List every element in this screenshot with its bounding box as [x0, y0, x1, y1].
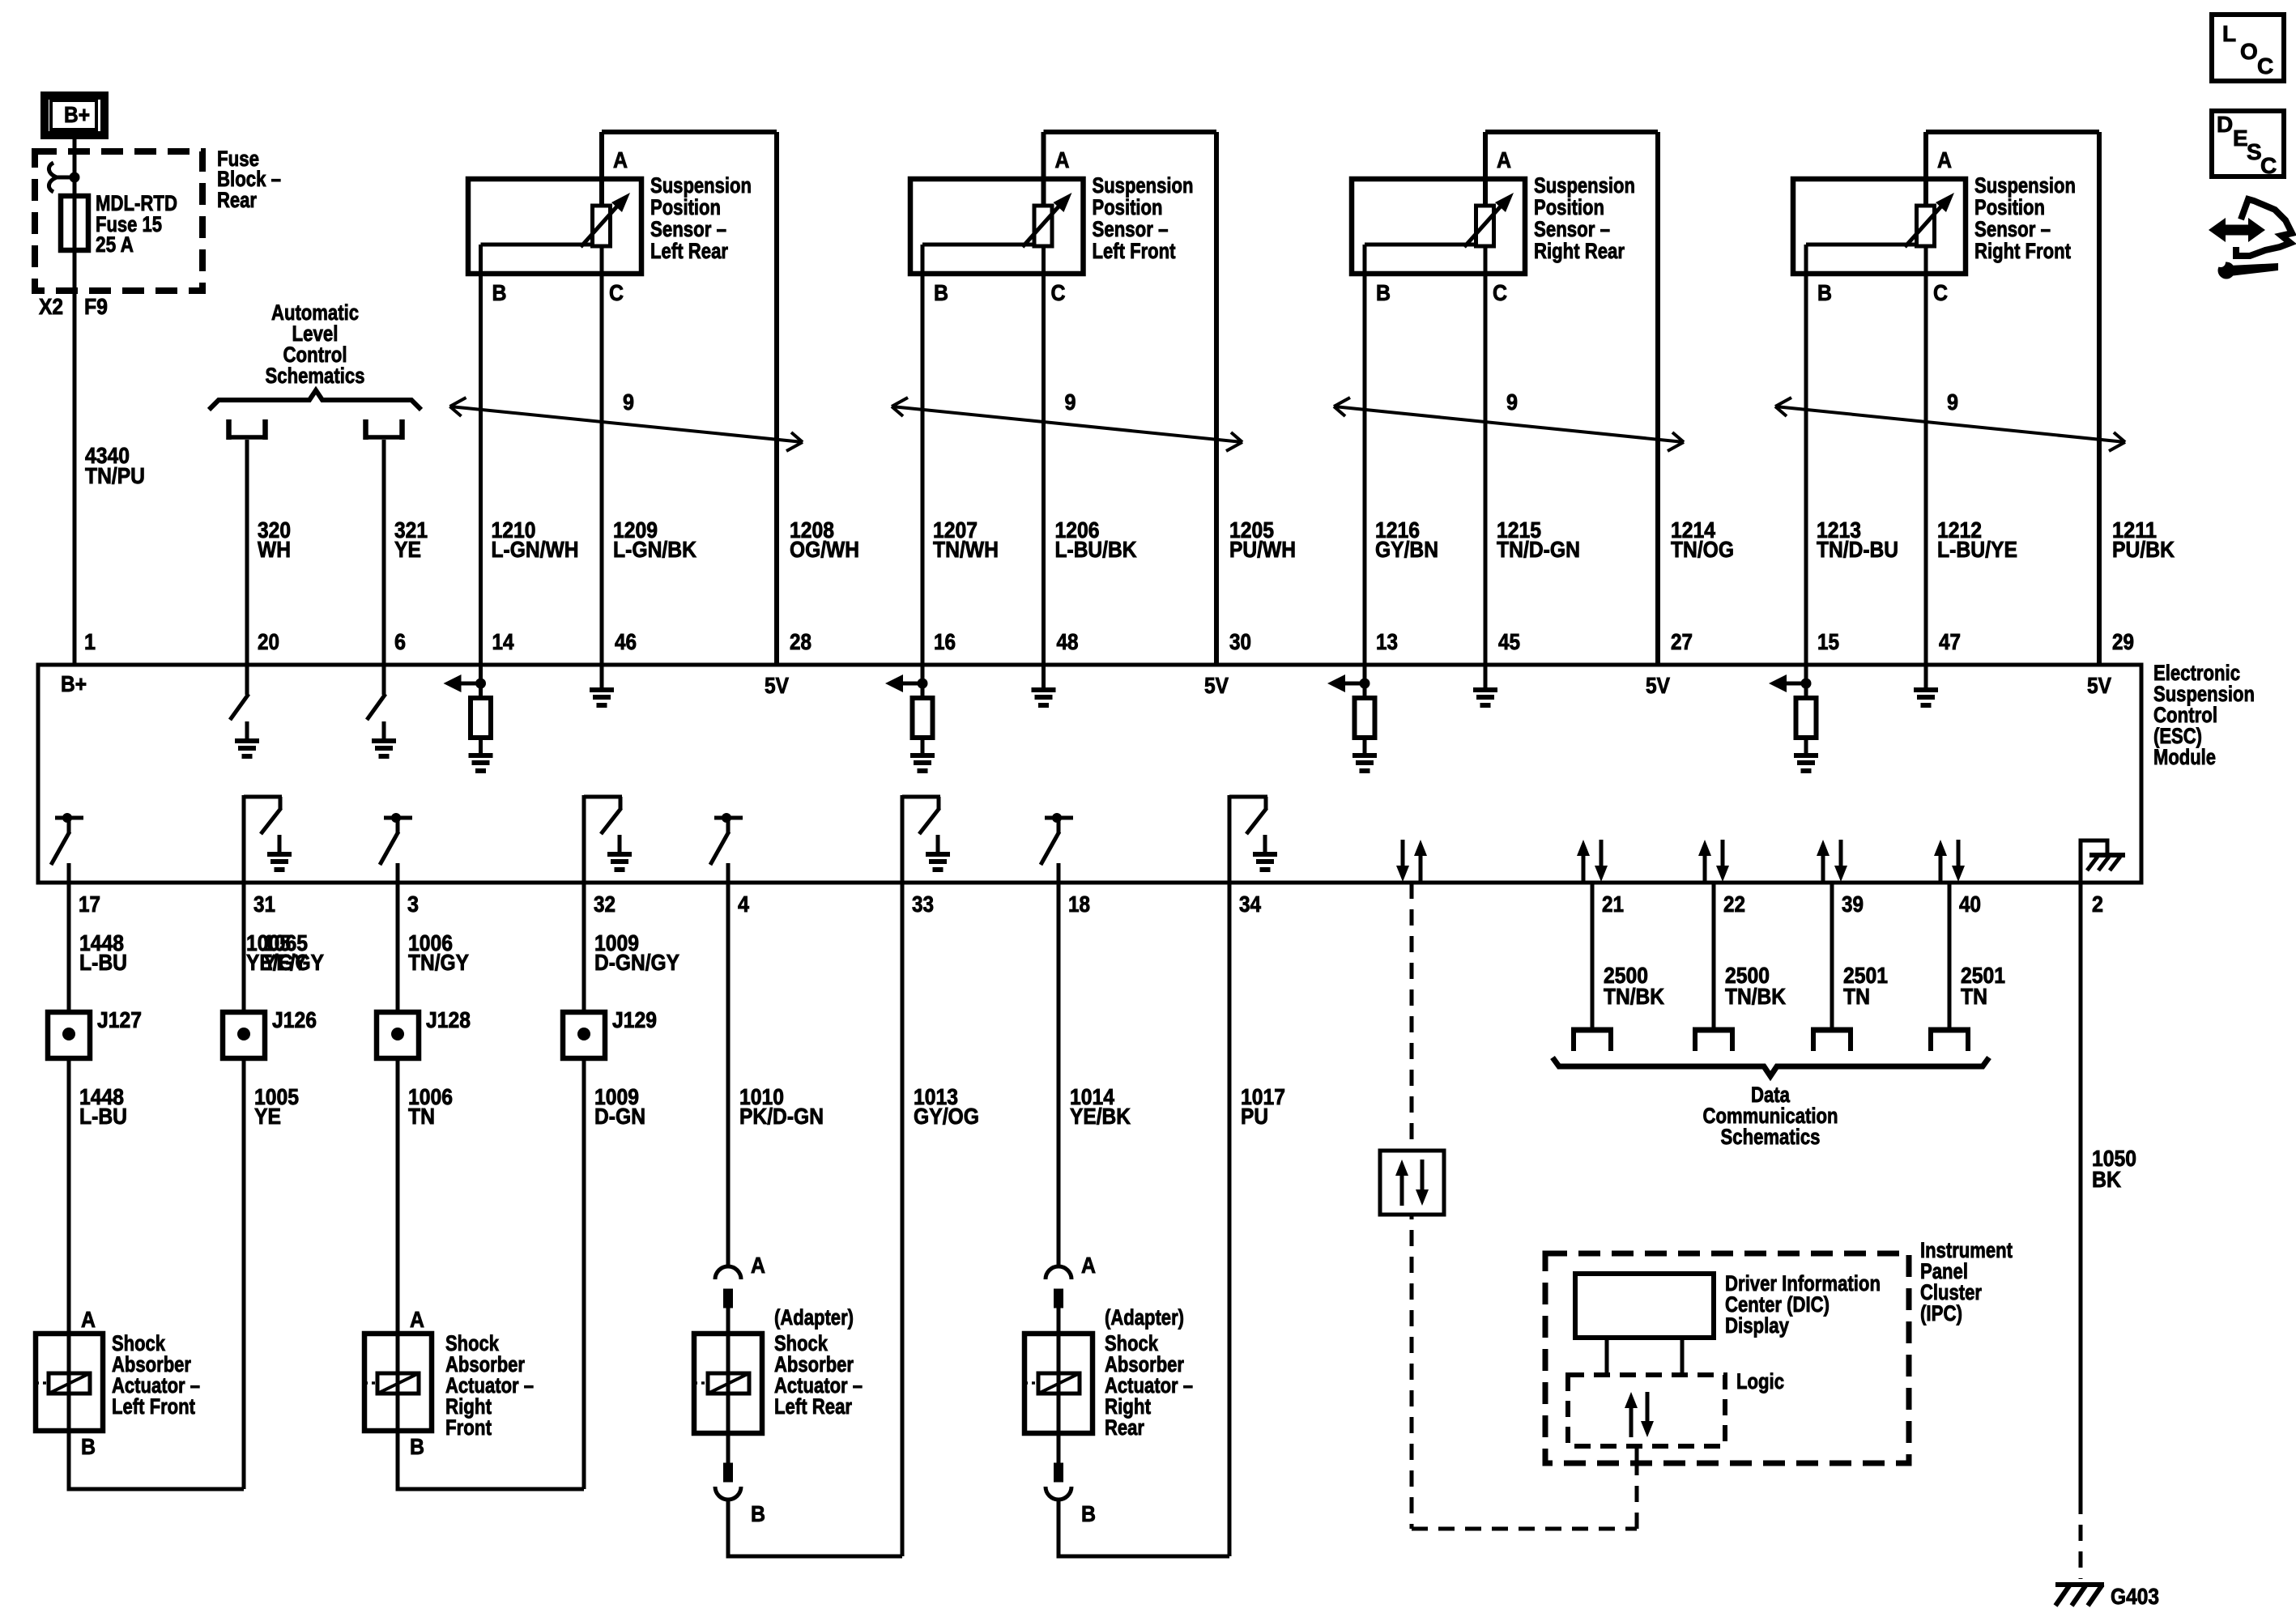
label Fuse Block - Rear	[217, 147, 281, 212]
wire label 1010 PK/D-GN	[739, 1084, 824, 1129]
instrument panel cluster IPC dashed box	[1545, 1253, 1909, 1463]
svg-text:TN/GY: TN/GY	[408, 950, 469, 975]
return wire down column 1114	[901, 883, 905, 1556]
svg-text:34: 34	[1239, 891, 1261, 917]
svg-text:25 A: 25 A	[96, 232, 134, 257]
svg-text:18: 18	[1068, 891, 1090, 917]
ground symbol inside module at pin 45	[1484, 665, 1488, 689]
svg-text:Sensor –: Sensor –	[1534, 217, 1610, 241]
DIC display title text	[1725, 1271, 1881, 1338]
svg-text:F9: F9	[84, 294, 108, 319]
bidirectional arrows inside logic box	[1625, 1392, 1654, 1437]
switch to ground inside module at pin 33	[902, 795, 940, 883]
ground symbol inside module below resistor pin 14	[469, 755, 493, 771]
svg-text:28: 28	[790, 629, 811, 654]
svg-text:TN/WH: TN/WH	[933, 537, 999, 562]
wire labels sensor Left Rear	[492, 517, 860, 562]
svg-text:Left Rear: Left Rear	[774, 1394, 852, 1419]
LOC legend box	[2212, 15, 2284, 81]
svg-text:(Adapter): (Adapter)	[774, 1305, 854, 1330]
fuse F9 MDL-RTD Fuse 15 25 A	[61, 196, 88, 250]
svg-text:L-BU: L-BU	[79, 950, 127, 975]
wire pin 32 to splice J129	[582, 883, 586, 1012]
svg-text:PK/D-GN: PK/D-GN	[739, 1104, 824, 1129]
suspension position sensor - Left Rear outer box	[602, 132, 777, 665]
sensor Right Front title text	[1974, 173, 2076, 263]
svg-text:B: B	[934, 280, 948, 305]
svg-text:YE: YE	[394, 537, 421, 562]
harness 9 crossing line for sensor Left Rear	[450, 389, 803, 451]
svg-text:B: B	[1817, 280, 1832, 305]
svg-text:5V: 5V	[1646, 673, 1670, 698]
svg-text:13: 13	[1376, 629, 1398, 654]
output driver switch with contact dot inside module at pin 17	[51, 813, 83, 883]
svg-text:GY/OG: GY/OG	[914, 1104, 979, 1129]
splice J126	[223, 1012, 265, 1058]
actuator Right Front title text	[445, 1331, 534, 1440]
connector labels X2 F9	[39, 294, 108, 319]
svg-text:A: A	[410, 1307, 424, 1332]
wire label 1009 D-GN/GY	[594, 930, 679, 975]
inline connector halves at pin A of Right Rear	[1046, 1266, 1071, 1334]
svg-text:15: 15	[1817, 629, 1839, 654]
wire serial data circuit 2500 TN/BK from pin 21	[1591, 883, 1595, 1030]
junction dot	[70, 172, 80, 183]
inline connector halves at pin B of Left Rear	[715, 1433, 741, 1500]
sensor Left Front potentiometer	[922, 193, 1072, 247]
connector to level control, circuit 321 YE	[364, 419, 404, 440]
wire module to adapter actuator Left Rear pin A	[726, 883, 731, 1266]
svg-text:J128: J128	[426, 1007, 471, 1032]
return wire down column 721	[582, 1058, 586, 1489]
wire splice to shock absorber actuator Right Front pin A	[396, 1058, 400, 1334]
svg-text:PU/WH: PU/WH	[1229, 537, 1296, 562]
svg-text:BK: BK	[2092, 1167, 2121, 1192]
svg-text:3: 3	[407, 891, 419, 917]
wire ground circuit 1050 BK from pin 2	[2079, 883, 2083, 1579]
svg-text:L-GN/WH: L-GN/WH	[492, 537, 579, 562]
sensor Left Rear potentiometer	[481, 193, 631, 247]
wire label 2500 TN/BK	[1725, 963, 1786, 1009]
svg-text:J127: J127	[97, 1007, 142, 1032]
sensor Left Front title text	[1093, 173, 1194, 263]
svg-text:Position: Position	[1974, 195, 2045, 219]
svg-text:B: B	[751, 1501, 765, 1526]
splice J127	[48, 1012, 90, 1058]
svg-text:PU: PU	[1241, 1104, 1268, 1129]
Electronic Suspension Control ESC module box	[38, 665, 2141, 883]
return wire down column 301	[242, 1058, 246, 1489]
connector to level control, circuit 320 WH	[227, 419, 267, 440]
svg-text:A: A	[1497, 147, 1511, 172]
return wire actuator Left Front pin B	[69, 1431, 244, 1489]
suspension position sensor - Left Front outer box	[1044, 132, 1217, 665]
svg-text:A: A	[1081, 1253, 1096, 1278]
svg-text:(IPC): (IPC)	[1920, 1301, 1962, 1326]
svg-text:D-GN: D-GN	[594, 1104, 645, 1129]
connector to data communication, pin 40	[1928, 1030, 1970, 1051]
wire label 2500 TN/BK	[1604, 963, 1664, 1009]
svg-text:29: 29	[2112, 629, 2134, 654]
ground symbol inside module at pin 47	[1924, 665, 1928, 689]
svg-text:9: 9	[623, 389, 634, 415]
suspension position sensor - Right Rear outer box	[1485, 132, 1658, 665]
svg-text:5V: 5V	[765, 673, 789, 698]
svg-text:9: 9	[1947, 389, 1958, 415]
svg-text:J129: J129	[612, 1007, 657, 1032]
svg-text:YE/GY: YE/GY	[263, 950, 324, 975]
svg-text:E: E	[2233, 126, 2248, 151]
svg-text:5V: 5V	[1204, 673, 1229, 698]
svg-text:YE: YE	[254, 1104, 281, 1129]
svg-text:Right Rear: Right Rear	[1534, 239, 1625, 263]
svg-text:OG/WH: OG/WH	[790, 537, 859, 562]
solenoid coil of actuator Right Front	[364, 1334, 419, 1431]
svg-text:S: S	[2247, 139, 2262, 164]
wire pin 3 to splice J128	[396, 883, 400, 1012]
wire sensor Left Front C to module, circuit 1206 L-BU/BK	[1042, 246, 1046, 665]
fuse block rear dashed box	[35, 151, 202, 291]
svg-text:TN/OG: TN/OG	[1671, 537, 1734, 562]
dashed data wire from module to IPC	[1412, 883, 1637, 1529]
DESC legend box	[2212, 111, 2284, 178]
svg-text:45: 45	[1498, 629, 1520, 654]
svg-text:Sensor –: Sensor –	[1974, 217, 2051, 241]
sensor Left Front connector box	[910, 179, 1084, 274]
svg-text:C: C	[609, 280, 624, 305]
svg-text:L-GN/BK: L-GN/BK	[613, 537, 696, 562]
splice J128	[377, 1012, 419, 1058]
svg-text:Position: Position	[1093, 195, 1163, 219]
svg-text:A: A	[751, 1253, 765, 1278]
sensor Left Rear pin letters A B C	[492, 147, 628, 305]
svg-text:L: L	[2222, 21, 2236, 46]
connector to data communication, pin 22	[1693, 1030, 1735, 1051]
ground symbol inside module below resistor pin 16	[910, 755, 935, 771]
svg-text:(Adapter): (Adapter)	[1105, 1305, 1184, 1330]
switch to ground inside module at pin 34	[1229, 795, 1267, 883]
bus tap hook at fuse input	[49, 163, 75, 192]
svg-text:22: 22	[1723, 891, 1745, 917]
bidirectional serial data arrows inside module at pin 22	[1698, 840, 1729, 882]
wire pin 31 to splice J126	[242, 883, 246, 1012]
svg-text:X2: X2	[39, 294, 63, 319]
wire label 1006 TN/GY	[408, 930, 469, 975]
sensor Right Rear connector box	[1352, 179, 1525, 274]
svg-text:B+: B+	[64, 102, 90, 127]
svg-text:1: 1	[84, 629, 96, 654]
svg-text:Module: Module	[2153, 745, 2216, 769]
svg-text:TN: TN	[408, 1104, 435, 1129]
svg-text:G403: G403	[2111, 1584, 2159, 1609]
IPC title text	[1920, 1238, 2013, 1326]
svg-text:C: C	[2257, 53, 2273, 79]
svg-text:A: A	[1055, 147, 1070, 172]
svg-text:A: A	[613, 147, 628, 172]
wire label 1013 GY/OG	[914, 1084, 979, 1129]
module input pull-up with arrow and resistor at pin 16	[885, 665, 933, 755]
svg-text:21: 21	[1602, 891, 1624, 917]
svg-text:9: 9	[1506, 389, 1518, 415]
svg-text:Logic: Logic	[1736, 1369, 1784, 1394]
solenoid coil of adapter actuator Left Rear	[694, 1334, 749, 1433]
shock absorber actuator Left Front box	[36, 1334, 103, 1431]
sensor Right Rear title text	[1534, 173, 1635, 263]
wire label 1006 TN	[408, 1084, 453, 1129]
boxed bidirectional arrow symbol on dashed line	[1380, 1151, 1444, 1215]
svg-text:Suspension: Suspension	[650, 173, 752, 198]
svg-text:PU/BK: PU/BK	[2112, 537, 2175, 562]
svg-text:TN/BK: TN/BK	[1725, 984, 1786, 1009]
module input pull-up with arrow and resistor at pin 15	[1769, 665, 1817, 755]
output driver switch with contact dot inside module at pin 18	[1041, 813, 1073, 883]
svg-text:9: 9	[1065, 389, 1076, 415]
ground symbol inside module below resistor pin 15	[1794, 755, 1818, 771]
bidirectional serial data arrows inside module at pin 39	[1817, 840, 1847, 882]
return wire actuator Right Front pin B	[398, 1431, 584, 1489]
driver switch to ground inside module at pin 6	[367, 665, 386, 740]
svg-text:B: B	[1376, 280, 1391, 305]
inline connector halves at pin A of Left Rear	[715, 1266, 741, 1334]
svg-text:47: 47	[1939, 629, 1961, 654]
sensor Right Front pin letters A B C	[1817, 147, 1952, 305]
solenoid coil of adapter actuator Right Rear	[1024, 1334, 1080, 1433]
sensor Right Front connector box	[1793, 179, 1966, 274]
harness 9 crossing line for sensor Right Front	[1775, 389, 2125, 451]
switch to ground inside module at pin 31	[244, 795, 282, 883]
chassis ground G403	[2055, 1585, 2104, 1606]
svg-text:32: 32	[594, 891, 616, 917]
svg-text:A: A	[1937, 147, 1952, 172]
adapter shock absorber actuator Left Rear box	[694, 1334, 762, 1433]
brace for Data Communication Schematics	[1553, 1057, 1989, 1076]
svg-text:5V: 5V	[2087, 673, 2111, 698]
brace for Automatic Level Control Schematics	[209, 390, 421, 410]
adapter actuator Right Rear title text	[1105, 1331, 1193, 1440]
svg-text:16: 16	[934, 629, 956, 654]
wire serial data circuit 2501 TN from pin 40	[1948, 883, 1952, 1030]
svg-text:B: B	[81, 1434, 96, 1459]
svg-text:Left Rear: Left Rear	[650, 239, 728, 263]
connector to data communication, pin 21	[1571, 1030, 1613, 1051]
svg-text:TN/PU: TN/PU	[85, 463, 145, 488]
fuse label MDL-RTD Fuse 15 25 A	[96, 191, 177, 257]
svg-text:40: 40	[1959, 891, 1981, 917]
module internal chassis ground at pin 2	[2081, 840, 2125, 883]
svg-text:Position: Position	[650, 195, 721, 219]
return wire down column 1518	[1228, 883, 1232, 1556]
svg-text:31: 31	[253, 891, 275, 917]
sensor Left Rear title text	[650, 173, 752, 263]
sensor Left Front pin letters A B C	[934, 147, 1070, 305]
bidirectional arrows inside module at dashed data line	[1396, 840, 1427, 882]
svg-text:B: B	[410, 1434, 424, 1459]
driver information center DIC display box	[1575, 1274, 1714, 1338]
adjust icon with double arrow, outline and wrench	[2209, 199, 2292, 279]
wire label 1014 YE/BK	[1070, 1084, 1131, 1129]
return wire adapter actuator Right Rear	[1059, 1500, 1229, 1556]
sensor Right Front potentiometer	[1806, 193, 1954, 247]
module input pull-up with arrow and resistor at pin 14	[444, 665, 492, 755]
svg-text:C: C	[1051, 280, 1066, 305]
svg-text:WH: WH	[258, 537, 291, 562]
svg-text:TN: TN	[1961, 984, 1987, 1009]
wire label 1448 L-BU	[79, 930, 127, 975]
svg-text:Schematics: Schematics	[266, 364, 365, 388]
wire sensor Right Front B to module, circuit 1213 TN/D-BU	[1804, 245, 1808, 665]
wire label 1009 D-GN	[594, 1084, 645, 1129]
logic dashed box	[1568, 1375, 1725, 1446]
svg-text:Left Front: Left Front	[1093, 239, 1176, 263]
wire label 2501 TN	[1843, 963, 1888, 1009]
svg-text:46: 46	[615, 629, 637, 654]
svg-text:A: A	[81, 1307, 96, 1332]
pin labels 13 45 27	[1376, 629, 1693, 654]
svg-text:Rear: Rear	[1105, 1415, 1144, 1440]
shock absorber actuator Right Front box	[364, 1334, 432, 1431]
svg-text:L-BU/BK: L-BU/BK	[1055, 537, 1137, 562]
wire labels sensor Left Front	[933, 517, 1296, 562]
adapter shock absorber actuator Right Rear box	[1024, 1334, 1093, 1433]
svg-text:L-BU/YE: L-BU/YE	[1937, 537, 2017, 562]
wire serial data circuit 2500 TN/BK from pin 22	[1712, 883, 1716, 1030]
bidirectional serial data arrows inside module at pin 21	[1577, 840, 1608, 882]
svg-text:Sensor –: Sensor –	[1093, 217, 1169, 241]
wire label 2501 TN	[1961, 963, 2005, 1009]
svg-text:Schematics: Schematics	[1721, 1125, 1821, 1149]
wire sensor Left Rear B to module, circuit 1210 L-GN/WH	[479, 245, 483, 665]
svg-text:B+: B+	[61, 671, 87, 696]
svg-text:39: 39	[1842, 891, 1864, 917]
svg-text:Position: Position	[1534, 195, 1604, 219]
connector to data communication, pin 39	[1811, 1030, 1853, 1051]
svg-text:YE/BK: YE/BK	[1070, 1104, 1131, 1129]
actuator Left Front title text	[112, 1331, 200, 1419]
output driver switch with contact dot inside module at pin 4	[710, 813, 743, 883]
sensor Right Rear potentiometer	[1365, 193, 1514, 247]
wire module to adapter actuator Right Rear pin A	[1057, 883, 1061, 1266]
svg-text:33: 33	[912, 891, 934, 917]
svg-text:Display: Display	[1725, 1313, 1789, 1338]
wire label 1005 YE	[254, 1084, 299, 1129]
wire 321 YE to ESC pin 6	[382, 440, 386, 665]
switch to ground inside module at pin 32	[584, 795, 622, 883]
wire sensor Right Rear B to module, circuit 1216 GY/BN	[1363, 245, 1367, 665]
label Data Communication Schematics	[1703, 1083, 1838, 1149]
wire label 1017 PU	[1241, 1084, 1285, 1129]
svg-text:4: 4	[738, 891, 749, 917]
return wire adapter actuator Left Rear	[728, 1500, 902, 1556]
wire labels sensor Right Front	[1817, 517, 2175, 562]
wire battery feed to fuse to pin 1, circuit 4340 TN/PU	[73, 139, 77, 665]
svg-text:Right Front: Right Front	[1974, 239, 2071, 263]
svg-text:D: D	[2217, 112, 2233, 137]
svg-text:14: 14	[492, 629, 514, 654]
svg-text:6: 6	[394, 629, 406, 654]
ground symbol inside module at pin 48	[1042, 665, 1046, 689]
svg-text:2: 2	[2092, 891, 2103, 917]
svg-text:L-BU: L-BU	[79, 1104, 127, 1129]
svg-text:Suspension: Suspension	[1093, 173, 1194, 198]
wire sensor Left Rear C to module, circuit 1209 L-GN/BK	[600, 246, 604, 665]
svg-text:D-GN/GY: D-GN/GY	[594, 950, 679, 975]
svg-text:Suspension: Suspension	[1534, 173, 1635, 198]
bidirectional serial data arrows inside module at pin 40	[1934, 840, 1965, 882]
ground symbol inside module at pin 46	[600, 665, 604, 689]
solenoid coil of actuator Left Front	[36, 1334, 90, 1431]
svg-text:GY/BN: GY/BN	[1375, 537, 1438, 562]
sensor Right Rear pin letters A B C	[1376, 147, 1511, 305]
pin labels 15 47 29	[1817, 629, 2134, 654]
svg-text:TN/D-GN: TN/D-GN	[1497, 537, 1580, 562]
svg-text:O: O	[2240, 39, 2258, 64]
wire label 1448 L-BU	[79, 1084, 127, 1129]
wire labels sensor Right Rear	[1375, 517, 1734, 562]
pin labels 16 48 30	[934, 629, 1251, 654]
splice J129	[563, 1012, 605, 1058]
svg-text:20: 20	[258, 629, 279, 654]
wire splice to shock absorber actuator Left Front pin A	[67, 1058, 71, 1334]
wire label 1050 BK	[2092, 1146, 2136, 1192]
svg-text:TN: TN	[1843, 984, 1870, 1009]
svg-text:Left Front: Left Front	[112, 1394, 195, 1419]
wire label 320 WH	[258, 517, 291, 562]
svg-text:C: C	[1933, 280, 1948, 305]
svg-text:17: 17	[79, 891, 100, 917]
wire sensor Right Rear C to module, circuit 1215 TN/D-GN	[1484, 246, 1488, 665]
svg-text:Sensor –: Sensor –	[650, 217, 726, 241]
overlapping wire labels 1005/1065 YE/GY at pin 31	[246, 930, 324, 975]
svg-text:J126: J126	[272, 1007, 317, 1032]
svg-text:27: 27	[1671, 629, 1693, 654]
svg-text:Front: Front	[445, 1415, 492, 1440]
svg-text:48: 48	[1057, 629, 1079, 654]
wire 320 WH to ESC pin 20	[245, 440, 249, 665]
harness 9 crossing line for sensor Left Front	[892, 389, 1242, 451]
svg-text:30: 30	[1229, 629, 1251, 654]
wire label 4340 TN/PU	[85, 443, 145, 488]
svg-text:B: B	[1081, 1501, 1096, 1526]
wire sensor Left Front B to module, circuit 1207 TN/WH	[921, 245, 925, 665]
svg-text:Suspension: Suspension	[1974, 173, 2076, 198]
sensor Left Rear connector box	[468, 179, 641, 274]
adapter actuator Left Rear title text	[774, 1331, 863, 1419]
svg-text:TN/D-BU: TN/D-BU	[1817, 537, 1898, 562]
ESC module title text	[2153, 661, 2255, 769]
harness 9 crossing line for sensor Right Rear	[1334, 389, 1684, 451]
svg-text:C: C	[1493, 280, 1507, 305]
label Automatic Level Control Schematics	[266, 300, 365, 388]
wire label 321 YE	[394, 517, 428, 562]
module input pull-up with arrow and resistor at pin 13	[1327, 665, 1375, 755]
svg-text:C: C	[2260, 153, 2277, 178]
pin labels 14 46 28	[492, 629, 812, 654]
wire pin 17 to splice J127	[67, 883, 71, 1012]
battery positive voltage symbol B+	[45, 96, 104, 135]
output driver switch with contact dot inside module at pin 3	[380, 813, 412, 883]
wire sensor Right Front C to module, circuit 1212 L-BU/YE	[1924, 246, 1928, 665]
svg-text:TN/BK: TN/BK	[1604, 984, 1664, 1009]
svg-text:Rear: Rear	[217, 188, 257, 212]
ground symbol inside module below resistor pin 13	[1352, 755, 1377, 771]
suspension position sensor - Right Front outer box	[1926, 132, 2099, 665]
driver switch to ground inside module at pin 20	[230, 665, 249, 740]
wire serial data circuit 2501 TN from pin 39	[1830, 883, 1834, 1030]
wires DIC display to logic	[1607, 1338, 1682, 1375]
inline connector halves at pin B of Right Rear	[1046, 1433, 1071, 1500]
svg-text:B: B	[492, 280, 507, 305]
